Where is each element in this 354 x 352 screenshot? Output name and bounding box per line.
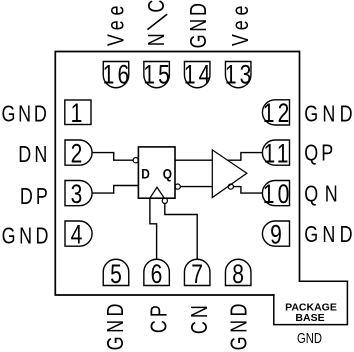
pin 10 bbox=[262, 181, 289, 206]
svg-text:14: 14 bbox=[184, 60, 214, 90]
package base label bbox=[285, 301, 337, 346]
svg-text:DN: DN bbox=[18, 142, 50, 168]
svg-text:GND: GND bbox=[304, 101, 354, 127]
svg-text:Vee: Vee bbox=[103, 1, 129, 46]
svg-text:15: 15 bbox=[143, 60, 173, 90]
pin 4 bbox=[65, 221, 92, 246]
svg-text:Vee: Vee bbox=[228, 1, 254, 46]
pin 7 bbox=[184, 259, 210, 285]
package outline bbox=[55, 52, 299, 296]
svg-text:11: 11 bbox=[264, 139, 292, 169]
svg-text:D: D bbox=[141, 166, 150, 182]
svg-text:2: 2 bbox=[71, 139, 86, 169]
svg-text:QP: QP bbox=[304, 140, 336, 166]
inversion bubble QN output bbox=[228, 184, 233, 189]
pin 12 bbox=[262, 100, 289, 125]
svg-text:QN: QN bbox=[304, 181, 344, 207]
slash of N/C label bbox=[147, 14, 167, 30]
svg-text:GND: GND bbox=[2, 224, 52, 250]
wire Q to buffer bbox=[175, 159, 212, 161]
svg-text:13: 13 bbox=[225, 60, 255, 90]
inversion bubble Qbar output bbox=[175, 184, 180, 189]
svg-text:GND: GND bbox=[186, 0, 212, 48]
pin 1 bbox=[65, 100, 91, 125]
pin 6 bbox=[144, 259, 170, 285]
svg-text:3: 3 bbox=[71, 180, 86, 210]
pin 14 bbox=[184, 62, 210, 88]
svg-text:10: 10 bbox=[263, 179, 293, 209]
pin 5 bbox=[103, 259, 129, 285]
svg-text:4: 4 bbox=[71, 220, 86, 250]
svg-text:BASE: BASE bbox=[295, 312, 324, 324]
pin 11 bbox=[262, 140, 289, 165]
svg-text:CN: CN bbox=[187, 302, 213, 334]
wire DN pin2 to flip-flop bbox=[92, 153, 133, 161]
wire Qbar to buffer bbox=[180, 186, 212, 188]
svg-text:GND: GND bbox=[227, 300, 253, 350]
buffer U2 bbox=[212, 150, 247, 198]
inversion bubble CN clock bbox=[162, 198, 167, 203]
svg-text:16: 16 bbox=[103, 60, 133, 90]
pin 9 bbox=[262, 221, 289, 246]
svg-text:6: 6 bbox=[151, 259, 166, 289]
pin 2 bbox=[65, 140, 92, 165]
wire CN pin7 to clock inverted bbox=[165, 203, 197, 259]
svg-text:5: 5 bbox=[110, 259, 125, 289]
pin 8 bbox=[225, 259, 251, 285]
package base box bbox=[274, 281, 348, 324]
svg-text:8: 8 bbox=[232, 259, 247, 289]
wire DP pin3 to flip-flop bbox=[92, 186, 138, 194]
flip-flop U1 bbox=[138, 147, 175, 198]
svg-text:GND: GND bbox=[297, 329, 322, 346]
svg-text:9: 9 bbox=[270, 220, 285, 250]
svg-text:GND: GND bbox=[304, 222, 354, 248]
pin 13 bbox=[225, 62, 251, 88]
svg-text:CP: CP bbox=[146, 302, 172, 333]
pin 3 bbox=[65, 181, 92, 206]
clock edge triangle bbox=[150, 187, 165, 198]
wire QP buffer to pin11 bbox=[228, 153, 263, 161]
svg-text:Q: Q bbox=[163, 166, 172, 182]
wire QN buffer to pin10 bbox=[233, 187, 263, 194]
svg-text:GND: GND bbox=[1, 102, 49, 128]
inversion bubble D input bbox=[133, 158, 138, 163]
svg-text:12: 12 bbox=[263, 98, 293, 128]
pin 16 bbox=[103, 62, 129, 88]
svg-text:DP: DP bbox=[20, 184, 51, 210]
pin 15 bbox=[144, 62, 170, 88]
wire CP pin6 to clock bbox=[150, 198, 157, 259]
svg-text:1: 1 bbox=[71, 99, 86, 129]
svg-text:GND: GND bbox=[103, 300, 129, 350]
svg-text:7: 7 bbox=[191, 259, 206, 289]
